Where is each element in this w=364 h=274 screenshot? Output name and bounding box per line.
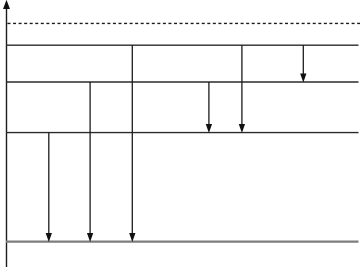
energy level n=4 (top solid level) bbox=[6, 44, 359, 46]
transition arrow 1 (n=2 to n=1) wire bbox=[48, 133, 50, 235]
transition arrow 4 head bbox=[206, 124, 211, 131]
transition arrow 4 (n=3 to n=2) wire bbox=[208, 82, 210, 125]
transition arrow 2 head bbox=[87, 233, 92, 241]
axis arrowhead (top of y-axis) bbox=[4, 1, 10, 9]
transition arrow 3 (n=4 to n=1) wire bbox=[131, 45, 133, 234]
energy axis (vertical y-axis line) bbox=[6, 7, 8, 267]
transition arrow 6 (n=4 to n=3) wire bbox=[302, 45, 304, 75]
transition arrow 6 head bbox=[301, 74, 306, 82]
transition arrow 5 (n=4 to n=2) wire bbox=[241, 45, 243, 125]
transition arrow 1 head bbox=[46, 233, 51, 241]
ionization limit (dashed level E=0) bbox=[8, 22, 361, 24]
transition arrow 2 (n=3 to n=1) wire bbox=[89, 82, 91, 234]
energy level n=3 (second solid level) bbox=[6, 81, 359, 83]
transition arrow 3 head bbox=[130, 233, 135, 241]
transition arrow 5 head bbox=[239, 124, 244, 131]
ground state level n=1 (thick gray bottom level) bbox=[6, 241, 359, 243]
energy level n=2 (third solid level) bbox=[6, 132, 359, 134]
